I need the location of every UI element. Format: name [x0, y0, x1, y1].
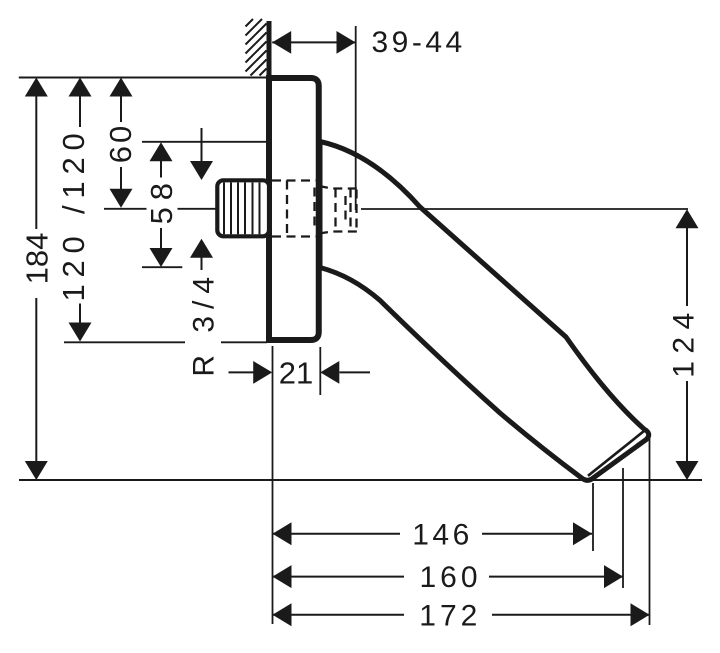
centerline left segments: [104, 208, 267, 210]
nipple thread hatch: [224, 183, 260, 235]
wall hatching: [246, 19, 267, 76]
dimension 184: [35, 95, 37, 462]
hidden coupling dashes (inside spout): [319, 186, 357, 234]
extension tip 172: [649, 438, 651, 626]
svg-text:21: 21: [279, 356, 313, 391]
dimension 160: [273, 576, 624, 578]
line 58 bottom tick: [142, 266, 182, 268]
leader R 3/4: [201, 128, 203, 270]
svg-text:146: 146: [412, 519, 473, 552]
svg-text:120 /120: 120 /120: [56, 126, 91, 301]
dimension 120/120: [79, 95, 81, 324]
dimension 58: [160, 160, 162, 249]
svg-text:172: 172: [419, 599, 481, 632]
spout body: [320, 142, 649, 481]
centerline right segment: [361, 208, 688, 210]
spout tip inner rim line: [588, 430, 645, 476]
hidden nipple dashes (through plate): [272, 181, 316, 237]
escutcheon plate: [269, 78, 319, 340]
dimension 39-44: [272, 41, 355, 43]
extension tip 160: [622, 468, 624, 588]
dimension 60: [120, 95, 122, 190]
svg-text:124: 124: [668, 305, 701, 378]
svg-text:160: 160: [419, 561, 481, 594]
extension below plate left: [272, 346, 274, 624]
threaded nipple: [217, 180, 269, 236]
baseline tub rim: [19, 479, 702, 481]
extension line plate bottom: [64, 341, 185, 343]
svg-text:58: 58: [144, 176, 179, 224]
svg-text:R 3/4: R 3/4: [188, 270, 221, 377]
svg-text:60: 60: [103, 123, 138, 163]
wall face line: [267, 21, 272, 343]
top reference line: [19, 77, 267, 79]
line 58 top: [142, 141, 266, 143]
svg-text:184: 184: [19, 233, 54, 285]
extension tip 146: [592, 483, 594, 551]
dimension 124: [686, 227, 688, 462]
dimension 172: [273, 614, 650, 616]
extension 21 right: [319, 347, 321, 395]
dimension 21: [229, 371, 371, 373]
dimension 146: [273, 533, 593, 535]
extension line 39-44: [355, 26, 357, 210]
svg-text:39-44: 39-44: [372, 26, 466, 59]
